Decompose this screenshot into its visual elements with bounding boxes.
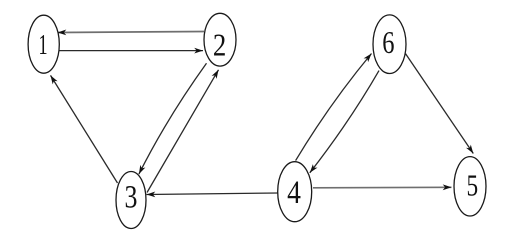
svg-text:3: 3 [125, 178, 138, 215]
node 6 [373, 15, 406, 74]
edge 4->5 [313, 184, 452, 190]
edge 4->3 [147, 192, 279, 198]
edge 6->5 [406, 54, 474, 154]
edge 3->2 [147, 70, 219, 193]
svg-text:6: 6 [382, 26, 394, 61]
svg-text:1: 1 [38, 31, 47, 62]
edge 4->6 [296, 54, 372, 161]
node 5 [454, 157, 486, 216]
node 3 [116, 172, 146, 229]
node 2 [204, 13, 236, 66]
svg-text:2: 2 [213, 29, 226, 63]
node 4 [278, 162, 312, 222]
node 1 [28, 15, 59, 73]
edge 1->2 [59, 48, 203, 54]
svg-text:4: 4 [287, 174, 301, 211]
edge 2->1 [58, 30, 205, 36]
svg-text:5: 5 [466, 168, 478, 202]
edge 3->1 [51, 75, 118, 183]
edge 6->4 [310, 71, 379, 173]
edge 2->3 [139, 63, 207, 174]
